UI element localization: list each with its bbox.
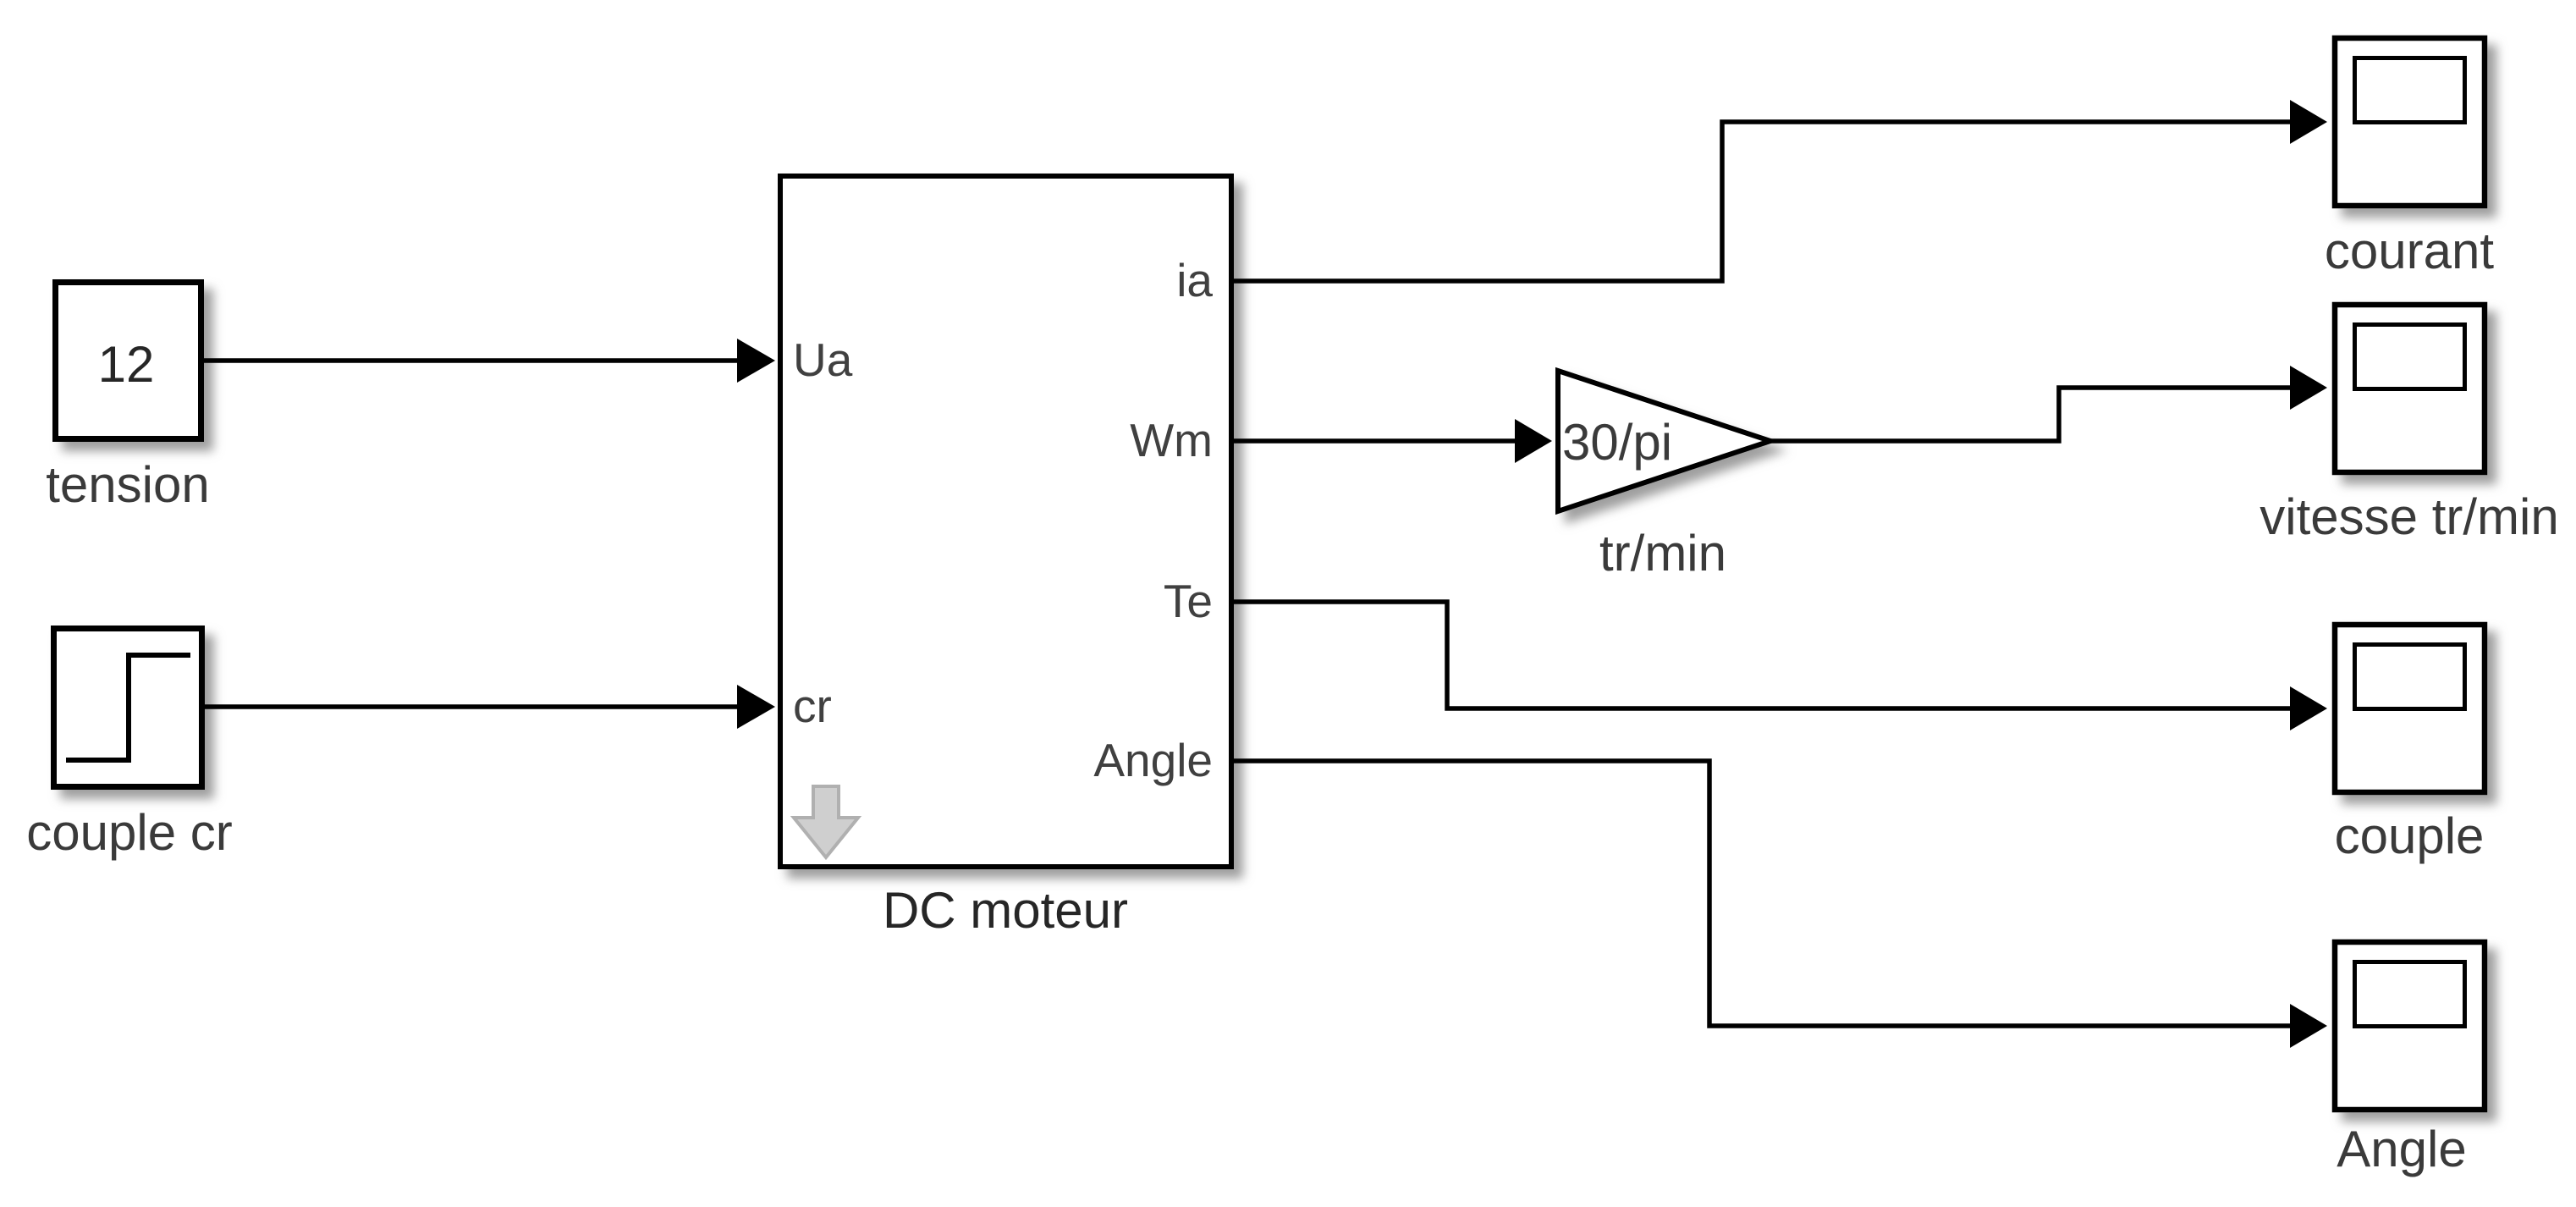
svg-text:vitesse tr/min: vitesse tr/min <box>2260 488 2558 545</box>
constant block tension (value 12) <box>56 283 201 439</box>
svg-text:Te: Te <box>1164 575 1213 627</box>
svg-text:12: 12 <box>98 336 155 393</box>
wire gain to vitesse scope <box>1770 366 2327 441</box>
scope Angle <box>2335 942 2485 1110</box>
gain block 30/pi <box>1558 371 1770 511</box>
step source couple cr <box>54 629 202 787</box>
svg-text:tension: tension <box>46 456 209 513</box>
scope couple <box>2335 625 2485 792</box>
svg-text:tr/min: tr/min <box>1599 525 1726 581</box>
svg-text:Ua: Ua <box>793 333 853 386</box>
wire Angle to Angle scope <box>1234 761 2327 1048</box>
svg-text:cr: cr <box>793 680 832 732</box>
wire Te to couple scope <box>1234 602 2327 730</box>
scope vitesse <box>2335 305 2485 472</box>
svg-text:Angle: Angle <box>1093 734 1213 786</box>
scope courant <box>2335 38 2485 206</box>
wire ia to courant scope <box>1234 100 2327 281</box>
wire couple cr to cr <box>202 685 775 729</box>
wire tension to Ua <box>201 339 775 383</box>
svg-text:ia: ia <box>1176 254 1213 306</box>
svg-text:couple cr: couple cr <box>26 804 232 861</box>
svg-text:DC moteur: DC moteur <box>883 882 1128 939</box>
svg-text:courant: courant <box>2325 223 2494 279</box>
subsystem DC moteur <box>780 176 1231 867</box>
svg-text:30/pi: 30/pi <box>1562 414 1672 471</box>
svg-text:Wm: Wm <box>1130 414 1213 466</box>
subsystem drop arrow icon <box>794 786 858 857</box>
svg-text:couple: couple <box>2335 807 2485 864</box>
wire Wm to gain <box>1234 419 1552 463</box>
svg-text:Angle: Angle <box>2337 1121 2466 1177</box>
